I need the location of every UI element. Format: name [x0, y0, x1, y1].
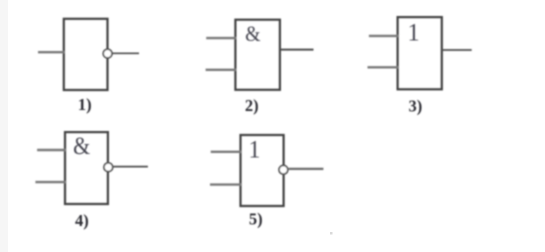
stray dot mark — [330, 232, 333, 235]
gate 5 output wire — [289, 168, 324, 170]
gate 4 input wire A — [37, 149, 66, 151]
svg-text:3): 3) — [409, 97, 423, 116]
svg-text:4): 4) — [75, 211, 89, 230]
gate 3 input wire B — [368, 66, 399, 68]
svg-text:1: 1 — [248, 136, 260, 164]
gate 4 output wire — [113, 166, 148, 168]
svg-text:1): 1) — [78, 95, 92, 114]
svg-text:5): 5) — [249, 210, 263, 229]
gate 3 output wire — [442, 49, 472, 51]
svg-text:&: & — [245, 21, 261, 46]
svg-text:&: & — [73, 133, 90, 161]
gate 1 (inverter) body — [64, 19, 108, 90]
gate 4 input wire B — [35, 181, 66, 183]
gate 3 input wire A — [369, 35, 399, 37]
gate 4 output bubble — [104, 163, 113, 172]
gate 5 input wire B — [210, 183, 242, 185]
gate 5 input wire A — [211, 151, 242, 153]
gate 2 output wire — [280, 49, 314, 51]
gate 1 input wire — [38, 51, 65, 53]
gate 4 (NAND) body — [65, 132, 108, 204]
gate 1 output bubble — [103, 49, 112, 58]
gate 1 output wire — [112, 52, 139, 54]
gate 5 (NOR) body — [241, 135, 284, 206]
svg-text:1: 1 — [407, 19, 419, 47]
gate 2 (AND) body — [235, 20, 280, 90]
svg-text:2): 2) — [245, 96, 259, 115]
gate 2 input wire A — [206, 37, 236, 39]
gate 5 output bubble — [279, 165, 288, 174]
gate 2 input wire B — [206, 69, 237, 71]
gate 3 (OR) body — [398, 17, 442, 89]
